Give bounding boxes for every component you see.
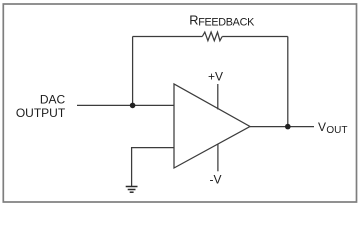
wire: DAC output to inverting input xyxy=(77,104,174,106)
node: output junction xyxy=(285,124,291,130)
resistor RFEEDBACK xyxy=(202,32,222,41)
svg-text:+V: +V xyxy=(208,70,223,84)
svg-text:V: V xyxy=(318,120,326,134)
svg-text:R: R xyxy=(189,13,198,28)
ground xyxy=(126,187,138,193)
wire: -V supply xyxy=(217,144,219,171)
wire: feedback top right segment xyxy=(222,36,288,38)
wire: feedback top left segment xyxy=(133,36,203,38)
wire: +V supply xyxy=(217,84,219,109)
svg-text:FEEDBACK: FEEDBACK xyxy=(198,17,255,29)
op-amp U1 xyxy=(174,84,250,168)
svg-text:-V: -V xyxy=(210,173,222,187)
wire: feedback left vertical xyxy=(132,37,134,106)
svg-text:OUT: OUT xyxy=(326,125,347,136)
wire: output xyxy=(250,126,314,128)
wire: feedback right vertical xyxy=(287,37,289,127)
svg-text:DAC: DAC xyxy=(40,93,66,107)
wire: non-inverting input to ground xyxy=(132,148,174,186)
node: summing junction xyxy=(130,103,136,109)
svg-text:OUTPUT: OUTPUT xyxy=(16,106,66,120)
